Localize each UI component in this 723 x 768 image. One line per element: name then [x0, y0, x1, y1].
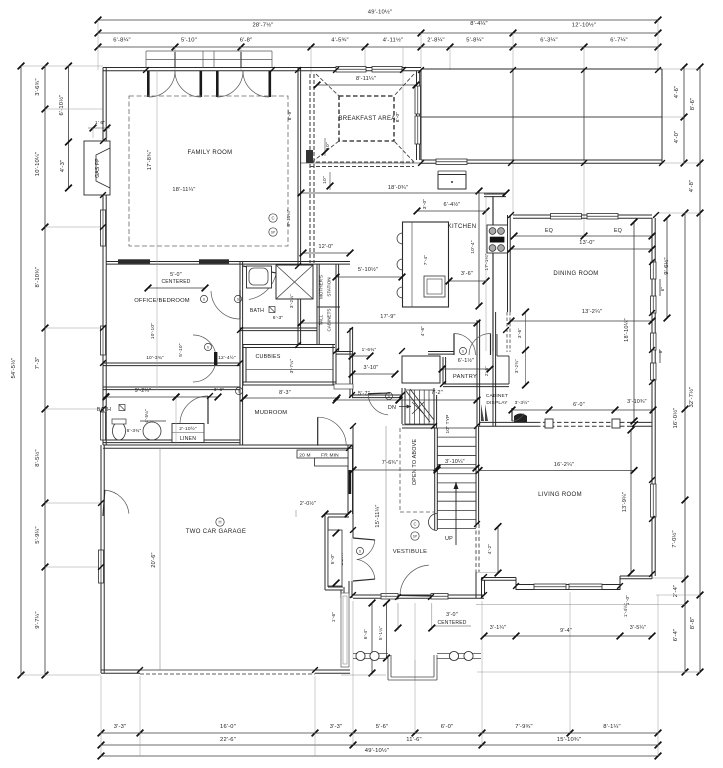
symbol garage H: [216, 518, 224, 526]
svg-text:BATH: BATH: [250, 308, 264, 314]
dim line bottom row1: [98, 730, 662, 737]
wall kitchen counter north: [484, 194, 506, 197]
svg-text:6'-4": 6'-4": [673, 629, 679, 642]
svg-text:6'-8": 6'-8": [240, 38, 253, 44]
svg-text:FAMILY ROOM: FAMILY ROOM: [188, 150, 233, 156]
dim line right inner lower: [682, 210, 689, 676]
ext line kitchen vertical: [485, 193, 487, 351]
bath2 checkbox: [269, 307, 275, 313]
svg-text:DN: DN: [388, 405, 396, 411]
dim line 6-4 fridge: [414, 208, 490, 215]
wall kitchen south: [336, 352, 352, 355]
svg-text:3'-6": 3'-6": [461, 271, 473, 277]
svg-text:4'-2": 4'-2": [487, 544, 493, 555]
svg-text:1'-4½": 1'-4½": [622, 603, 628, 617]
vanity counter lower bath: [140, 420, 166, 422]
symbol office closet: [204, 343, 211, 350]
mudroom bench box: [334, 384, 353, 389]
svg-text:4'-11½": 4'-11½": [383, 37, 404, 44]
svg-text:3'-2¾": 3'-2¾": [514, 359, 519, 373]
svg-text:8'-11¼": 8'-11¼": [286, 209, 292, 226]
svg-text:S: S: [207, 346, 209, 350]
svg-text:3'-3": 3'-3": [114, 724, 127, 730]
porch columns left: [356, 651, 365, 660]
dashed open-to-above boundary: [400, 428, 434, 512]
svg-text:TALL: TALL: [319, 314, 324, 325]
wall mothers station west: [317, 264, 319, 344]
coat area walls: [325, 514, 352, 598]
wall bath2 south: [240, 328, 317, 331]
wall kitchen east: [508, 215, 511, 312]
wall pantry west: [443, 357, 446, 384]
wall living south right: [620, 576, 652, 579]
svg-text:H: H: [218, 520, 221, 525]
svg-text:9'-7¼": 9'-7¼": [35, 611, 41, 629]
svg-text:VESTIBULE: VESTIBULE: [393, 549, 428, 555]
family windows outer frame: [146, 51, 272, 68]
stair closet block: [402, 356, 440, 383]
stairs landing wall: [402, 425, 437, 428]
svg-text:3'-7¼": 3'-7¼": [289, 359, 295, 374]
svg-text:3'-0": 3'-0": [446, 612, 458, 618]
symbol bath2: [234, 295, 241, 302]
svg-text:3'-1¼": 3'-1¼": [490, 625, 506, 631]
svg-text:KITCHEN: KITCHEN: [448, 224, 477, 230]
dim line left 6-10 and 4-3: [65, 63, 72, 192]
svg-text:3'-6": 3'-6": [517, 328, 522, 338]
dining column left: [545, 419, 553, 428]
svg-text:10": 10": [322, 176, 328, 184]
arrow DN: [399, 405, 411, 409]
svg-text:3'-10¼": 3'-10¼": [445, 459, 465, 465]
svg-text:20 M: 20 M: [299, 453, 310, 459]
shower with X: [276, 265, 313, 299]
dim line living north: [509, 407, 657, 414]
wall garage east: [348, 445, 353, 514]
svg-text:5'-1¼": 5'-1¼": [378, 626, 383, 640]
dim line left second col: [42, 63, 49, 679]
svg-text:16'-2¼": 16'-2¼": [554, 462, 574, 468]
bath lower checkbox: [119, 405, 125, 411]
svg-text:CENTERED: CENTERED: [437, 620, 466, 626]
svg-text:DINING ROOM: DINING ROOM: [553, 271, 598, 277]
svg-text:S: S: [237, 298, 239, 302]
wall exterior top porch edge: [421, 68, 662, 70]
ext front wall right: [658, 604, 685, 606]
hall closet jog: [497, 334, 509, 384]
svg-text:9'-4": 9'-4": [560, 628, 572, 634]
svg-text:8'-5½": 8'-5½": [34, 449, 41, 467]
kitchen island: [403, 222, 449, 307]
wall stair east upper: [477, 320, 480, 426]
dim line left overall: [18, 63, 25, 679]
ext line 9-2: [175, 397, 177, 445]
svg-text:3'-5¼": 3'-5¼": [630, 625, 646, 631]
refrigerator: [438, 175, 466, 190]
dim line 7-6 stair: [350, 467, 441, 474]
family window casement arc 4: [243, 71, 269, 97]
window family room west: [101, 210, 106, 246]
bath2 vanity: [247, 266, 272, 288]
wall bath south: [103, 440, 240, 443]
svg-text:10" TYP: 10" TYP: [445, 414, 451, 433]
wall exterior west garage: [101, 445, 104, 673]
door garage to mudroom: [318, 417, 347, 446]
dim line 13-0: [508, 246, 656, 253]
svg-text:2'-6": 2'-6": [484, 366, 489, 376]
svg-text:6'-3¾": 6'-3¾": [127, 428, 142, 434]
svg-text:CABINETS: CABINETS: [327, 309, 332, 332]
stairs up treads: [437, 428, 476, 529]
porch column grid lines: [421, 69, 584, 160]
door office closet arc 1: [193, 335, 216, 358]
svg-text:49'-10½": 49'-10½": [368, 9, 392, 16]
svg-text:8'-6": 8'-6": [690, 98, 696, 111]
window breakfast north 2: [372, 67, 402, 73]
ext living south right: [652, 577, 685, 579]
window vestibule 2: [431, 594, 448, 600]
dim line 7-2: [396, 397, 481, 404]
svg-text:C: C: [271, 216, 274, 221]
fireplace dim 1-6: [88, 125, 110, 138]
svg-text:8'-0": 8'-0": [395, 112, 401, 123]
wall bath2 west: [240, 261, 243, 328]
arrow UP: [454, 482, 459, 545]
window living bay 2: [569, 584, 602, 590]
sink lower bath: [143, 422, 161, 440]
svg-text:LIVING ROOM: LIVING ROOM: [538, 492, 582, 498]
wall kitchen north: [421, 160, 662, 163]
svg-text:SP: SP: [413, 535, 417, 539]
dim line 17-9: [298, 320, 481, 327]
dining column right: [612, 419, 620, 428]
stairs basement side walls: [402, 388, 434, 424]
dim line 4-2: [495, 523, 502, 576]
svg-text:7'-2": 7'-2": [431, 390, 443, 396]
window dining north 2: [587, 214, 618, 220]
svg-text:5'-6": 5'-6": [376, 724, 389, 730]
wall exterior top family room: [103, 68, 298, 71]
dim 10 underline 2: [329, 172, 331, 190]
svg-text:6'-10½": 6'-10½": [58, 94, 65, 115]
svg-text:LINEN: LINEN: [180, 436, 196, 442]
svg-text:4'-6": 4'-6": [674, 86, 680, 99]
garage wall panel: [341, 593, 349, 667]
svg-text:6": 6": [660, 287, 665, 292]
svg-text:22'-6": 22'-6": [220, 737, 236, 743]
island stool 2: [397, 259, 402, 270]
dim line 5-10 island: [333, 274, 406, 281]
dim line breakfast width: [314, 82, 420, 89]
svg-text:12'-0": 12'-0": [319, 244, 334, 250]
dashed vault diagonals: [312, 74, 414, 162]
svg-text:1'-6": 1'-6": [331, 612, 337, 623]
wall garage north: [103, 445, 353, 448]
wall living north: [479, 422, 536, 426]
svg-text:10'-4": 10'-4": [470, 240, 476, 254]
svg-text:54'-5½": 54'-5½": [10, 357, 17, 378]
wall breakfast east: [417, 71, 420, 160]
svg-text:OPEN TO ABOVE: OPEN TO ABOVE: [412, 439, 418, 486]
dim line 3-6 island: [446, 278, 490, 285]
family south wall opening bar 1: [118, 259, 150, 264]
svg-text:5'-0": 5'-0": [170, 272, 182, 278]
dim line bottom row2: [98, 742, 662, 749]
symbol hall: [385, 392, 392, 399]
svg-text:8'-11¼": 8'-11¼": [356, 76, 376, 82]
svg-text:1'-6¾": 1'-6¾": [362, 347, 377, 353]
svg-text:6": 6": [658, 349, 663, 354]
dim 2-0 ticks: [296, 510, 351, 517]
wall family east: [298, 68, 301, 346]
svg-text:2'-10½": 2'-10½": [179, 425, 197, 432]
wall exterior top breakfast: [298, 68, 421, 71]
dim line 10-4 kitchen: [476, 188, 483, 310]
wall garage south right: [315, 670, 350, 673]
svg-text:5'-10": 5'-10": [178, 343, 184, 357]
svg-text:3'-2¼": 3'-2¼": [289, 294, 294, 308]
wall dining north: [513, 215, 652, 218]
porch columns right: [449, 651, 458, 660]
office closet jamb: [214, 352, 217, 365]
porch east edge: [661, 69, 663, 163]
svg-text:TWO CAR GARAGE: TWO CAR GARAGE: [186, 529, 247, 535]
dim line 16-2 living: [476, 467, 638, 474]
svg-text:12'-4½": 12'-4½": [218, 354, 236, 361]
wall station divider: [317, 306, 340, 308]
breakfast corner post: [306, 150, 313, 163]
wall stair east: [476, 426, 479, 524]
symbol mudroom: [235, 387, 242, 394]
svg-text:17'-1¼": 17'-1¼": [484, 253, 489, 270]
cabinet display shelf: [514, 414, 527, 423]
wall tick marks: [98, 67, 665, 673]
counter edge kitchen dark: [492, 196, 494, 351]
door pantry right: [469, 334, 491, 356]
svg-text:6'-0": 6'-0": [441, 724, 454, 730]
svg-text:CUBBIES: CUBBIES: [255, 354, 280, 360]
dim line top overall: [95, 17, 662, 24]
wall family south: [106, 262, 350, 265]
door garage side: [103, 490, 129, 516]
svg-text:S: S: [359, 550, 361, 554]
window garage west: [99, 550, 104, 583]
family south wall opening bar 2: [199, 259, 229, 264]
svg-text:5'-8¼": 5'-8¼": [466, 38, 484, 44]
svg-text:8'-3": 8'-3": [279, 390, 291, 396]
dim line 5-1 front: [383, 600, 390, 662]
range cooktop: [487, 225, 508, 253]
svg-text:6'-8¼": 6'-8¼": [113, 38, 131, 44]
svg-text:CENTERED: CENTERED: [161, 279, 190, 285]
svg-text:6'-3¼": 6'-3¼": [540, 38, 558, 44]
dim line 3-6 bath: [173, 394, 222, 401]
dim line 8-3: [241, 395, 341, 402]
door coat 1: [353, 538, 375, 560]
linen closet: [172, 424, 204, 443]
svg-text:2'-0½": 2'-0½": [300, 500, 316, 507]
right extension lines: [656, 69, 700, 672]
dashed beam dining south: [536, 422, 627, 426]
window dining east 4: [651, 363, 657, 380]
symbol C family: [269, 214, 277, 222]
svg-text:EQ: EQ: [545, 228, 553, 234]
svg-text:13'-9¼": 13'-9¼": [622, 492, 628, 512]
svg-text:17'-9": 17'-9": [380, 314, 395, 320]
svg-text:3'-6": 3'-6": [214, 387, 225, 393]
svg-text:17'-8¾": 17'-8¾": [147, 150, 153, 170]
wall hall north: [352, 395, 402, 398]
wall garage east lower: [349, 581, 352, 598]
window breakfast east 1: [415, 86, 421, 114]
ext line family vertical: [156, 70, 158, 390]
dim line 6-4 front: [369, 600, 376, 677]
window dining east 3: [651, 333, 657, 350]
porch wing wall right: [437, 654, 481, 659]
coat closet inner: [328, 530, 342, 586]
svg-text:6'-1½": 6'-1½": [458, 357, 474, 364]
dashed vault breakfast bottom: [310, 162, 414, 167]
svg-text:28'-7½": 28'-7½": [252, 22, 273, 29]
bottom extension lines: [101, 592, 658, 756]
fireplace GAS FP: [84, 141, 110, 195]
svg-text:15'-11¼": 15'-11¼": [375, 504, 381, 527]
dim line 18-0: [298, 190, 510, 197]
svg-text:13'-0": 13'-0": [579, 240, 594, 246]
door office entry: [211, 290, 240, 319]
svg-text:7'-6¾": 7'-6¾": [382, 460, 398, 466]
door coat 2: [353, 559, 375, 581]
svg-text:18'-0¾": 18'-0¾": [388, 185, 408, 191]
dim line 3-10: [349, 371, 399, 378]
door front entry: [400, 565, 431, 596]
dim line bay: [481, 633, 656, 640]
svg-text:6'-4½": 6'-4½": [443, 201, 460, 208]
stairs bullnose: [429, 514, 438, 531]
wall hall closet west: [493, 312, 496, 426]
porch mid line: [421, 116, 662, 118]
svg-text:S: S: [203, 298, 205, 302]
wall living south left: [482, 578, 517, 581]
dim line right outer: [697, 64, 704, 676]
svg-text:S: S: [462, 350, 464, 354]
dim line 3-10 stair: [434, 465, 480, 472]
wall pantry south: [443, 384, 509, 387]
door bath2 shower: [243, 266, 276, 300]
symbol SP family: [269, 228, 277, 236]
window dining north 1: [551, 214, 582, 220]
front yard line: [476, 604, 658, 606]
svg-text:CABINET: CABINET: [486, 393, 508, 399]
stairs basement treads: [405, 390, 434, 424]
front door center ext: [395, 603, 436, 680]
svg-text:7'-3": 7'-3": [35, 357, 41, 370]
left extension lines: [21, 66, 103, 675]
door office closet arc 2: [193, 359, 216, 382]
wall dining east: [652, 218, 655, 426]
garage dim line: [159, 448, 161, 670]
dim line 13-2: [508, 318, 656, 325]
svg-text:OFFICE/BEDROOM: OFFICE/BEDROOM: [134, 298, 190, 304]
wall bath north: [103, 387, 240, 390]
dim line 5-7: [333, 397, 403, 404]
svg-text:BREAKFAST AREA: BREAKFAST AREA: [338, 116, 395, 122]
wall vestibule east lower: [475, 572, 477, 599]
svg-text:49'-10½": 49'-10½": [365, 747, 389, 754]
svg-text:3'-3": 3'-3": [330, 724, 343, 730]
family window casement arc 2: [175, 71, 201, 97]
svg-text:7'-0½": 7'-0½": [671, 530, 678, 548]
garage door leaf bar: [349, 470, 352, 494]
window living bay 1: [534, 584, 566, 590]
svg-text:16'-0": 16'-0": [220, 724, 236, 730]
living bay side walls: [482, 576, 653, 599]
svg-text:4'-0": 4'-0": [674, 131, 680, 144]
svg-text:15'-10¾": 15'-10¾": [557, 737, 581, 743]
dim line 1-6: [349, 353, 374, 360]
svg-text:S: S: [388, 395, 390, 399]
dim line closet vert: [522, 309, 529, 389]
dim line 13-9: [628, 427, 635, 577]
door bath lower: [180, 396, 208, 424]
svg-text:8'-1¼": 8'-1¼": [603, 724, 621, 730]
symbol office: [200, 295, 207, 302]
svg-text:2'-8¼": 2'-8¼": [427, 38, 445, 44]
stairs basement X: [412, 402, 424, 414]
window bath west: [101, 412, 106, 440]
svg-text:5'-0": 5'-0": [330, 554, 336, 565]
svg-text:EQ: EQ: [614, 228, 622, 234]
wall exterior west upper: [103, 68, 106, 142]
svg-text:3'-10": 3'-10": [364, 365, 379, 371]
dim line top second row: [95, 30, 662, 37]
svg-text:6'-7¼": 6'-7¼": [610, 38, 628, 44]
svg-text:UP: UP: [445, 536, 453, 542]
coat dim ticks: [333, 530, 340, 587]
window breakfast north 1: [336, 67, 366, 73]
dim line 6 win a: [659, 279, 661, 296]
extension lines from top dims: [98, 20, 658, 236]
symbol mudroom coat: [356, 547, 363, 554]
svg-text:5'-7": 5'-7": [358, 391, 370, 397]
porch wing wall left: [353, 654, 388, 659]
svg-text:3'-10¾": 3'-10¾": [627, 399, 647, 405]
svg-text:16'-0½": 16'-0½": [672, 407, 679, 428]
wall living bay south: [516, 585, 620, 590]
family window casement arc 1: [149, 71, 175, 97]
svg-text:5'-10½": 5'-10½": [358, 266, 378, 273]
door hall stairs: [368, 393, 390, 415]
wall office south: [103, 363, 240, 366]
wall dining south corner: [627, 422, 652, 426]
dashed vault breakfast inner rect: [339, 96, 394, 141]
stairs up side wall left: [435, 428, 438, 530]
svg-text:4'-5¾": 4'-5¾": [331, 38, 349, 44]
window vestibule 1: [381, 594, 398, 600]
svg-text:MOTHER'S: MOTHER'S: [319, 275, 324, 299]
wall exterior west mid: [103, 195, 106, 445]
fire door box: [297, 450, 348, 458]
dashed vault breakfast west: [310, 74, 314, 263]
garage front line: [341, 674, 386, 676]
dashed cased opening vestibule east: [476, 524, 479, 572]
svg-text:8'-4¼": 8'-4¼": [470, 21, 488, 27]
dashed tray ceiling family room: [129, 96, 288, 246]
dim line right inner upper: [681, 64, 688, 167]
kitchen island sink: [424, 276, 445, 297]
wall mothers station east: [336, 264, 339, 351]
line second floor edge breakfast: [301, 162, 421, 164]
